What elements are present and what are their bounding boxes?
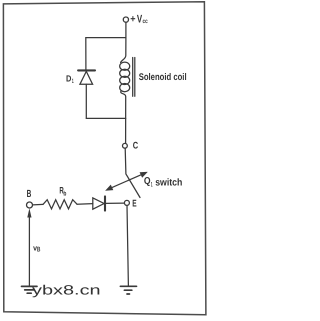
svg-text:+: +: [130, 14, 135, 25]
svg-text:ybx8.cn: ybx8.cn: [32, 283, 101, 298]
svg-text:Solenoid coil: Solenoid coil: [139, 72, 187, 83]
svg-text:B: B: [27, 189, 32, 200]
svg-text:E: E: [132, 198, 137, 209]
svg-text:b: b: [63, 191, 66, 198]
svg-text:switch: switch: [155, 177, 182, 188]
svg-text:1: 1: [72, 78, 74, 85]
svg-text:1: 1: [151, 182, 153, 189]
svg-text:B: B: [37, 246, 40, 253]
svg-text:C: C: [133, 140, 138, 151]
svg-text:cc: cc: [143, 18, 149, 25]
svg-text:Q: Q: [144, 176, 151, 187]
